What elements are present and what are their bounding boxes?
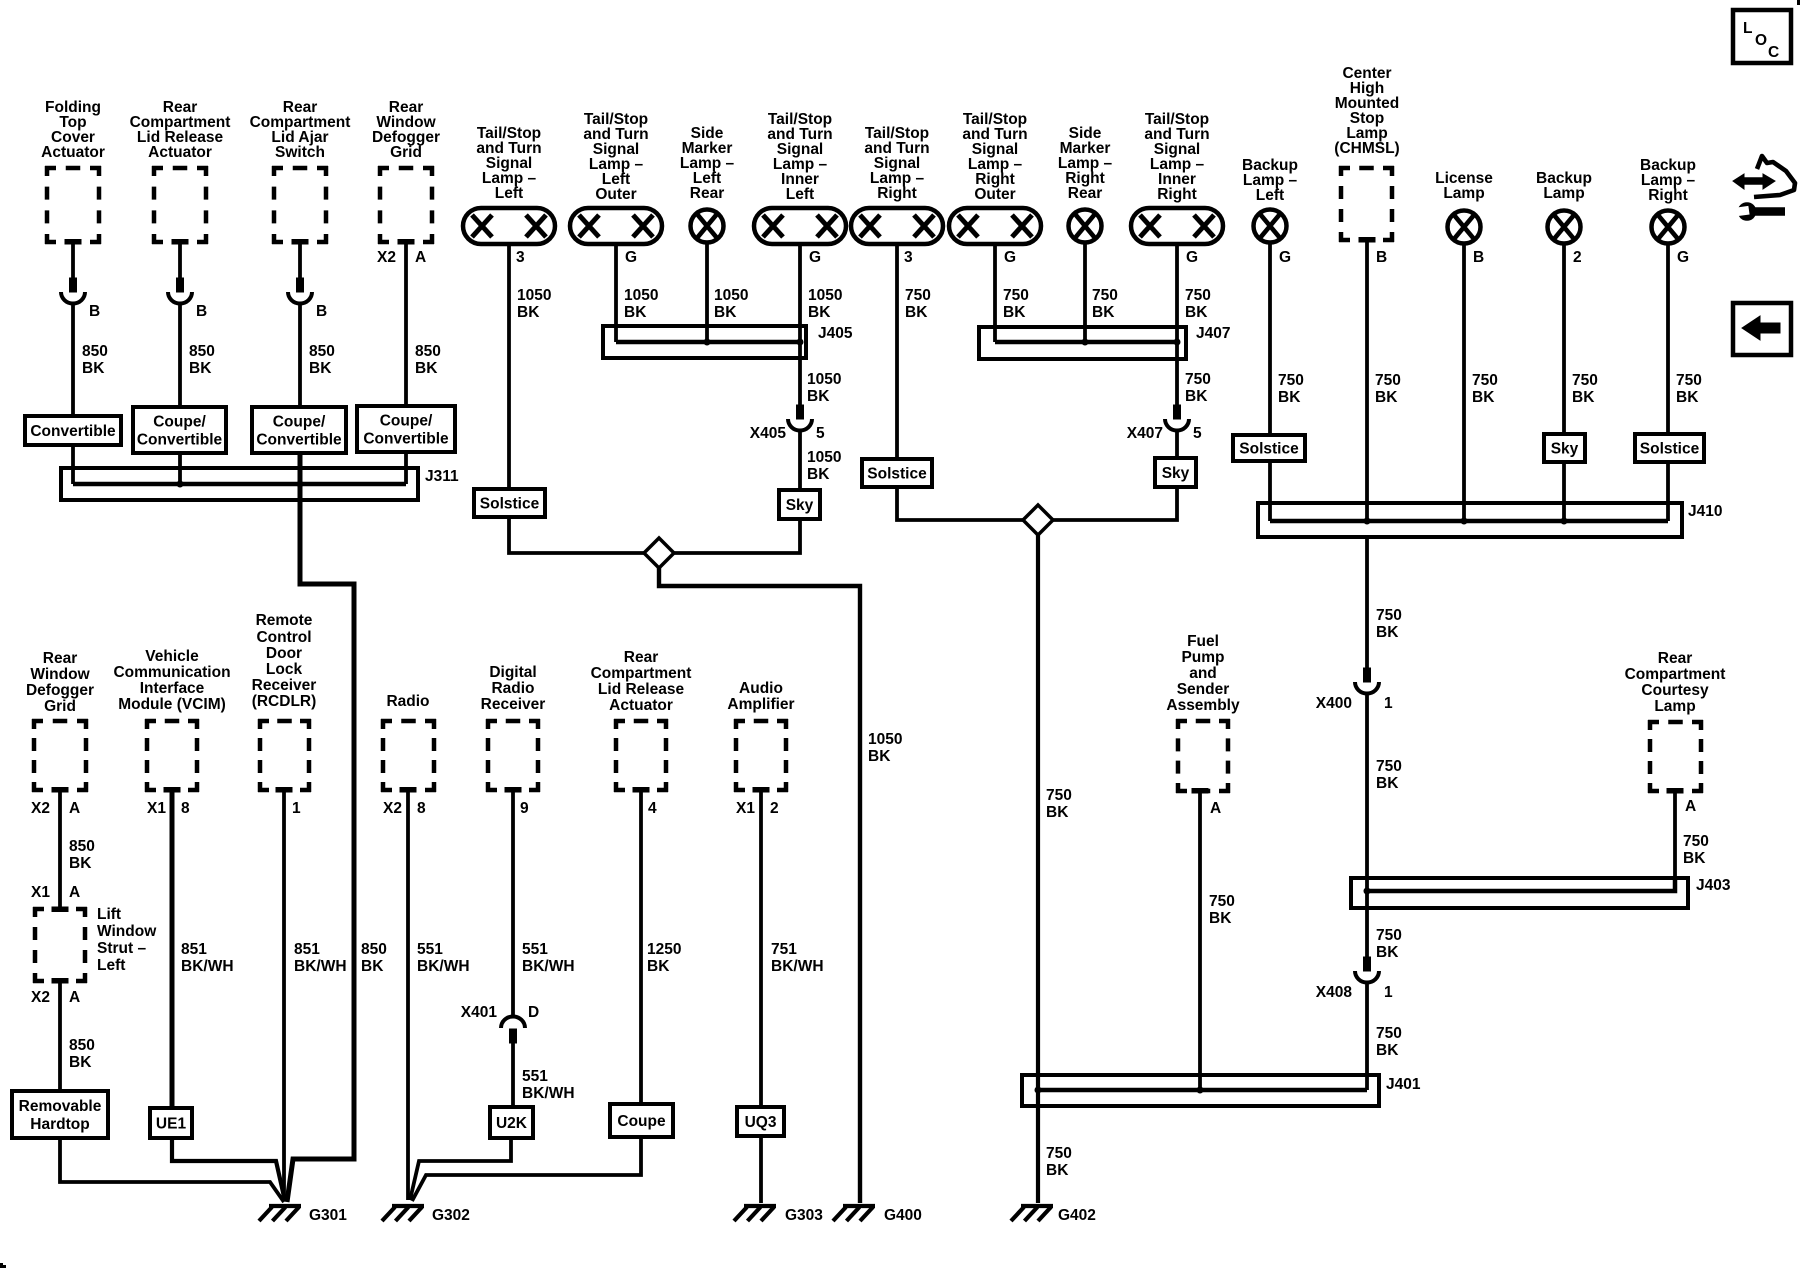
- box: Coupe: [610, 1104, 673, 1137]
- svg-text:750BK: 750BK: [1003, 287, 1029, 321]
- wire to G302: [412, 1137, 641, 1201]
- svg-text:5: 5: [1193, 425, 1202, 442]
- component box: rear window defogger grid: [378, 166, 434, 244]
- wire 850 BK rear compartment lid release actuator: [178, 303, 182, 407]
- J407 bus: [995, 340, 1177, 345]
- inline connector X401: [501, 1017, 525, 1044]
- lamp symbol: backup lamp - left: [1254, 210, 1287, 243]
- svg-text:B: B: [89, 303, 100, 320]
- svg-text:B: B: [1473, 249, 1484, 266]
- wire 1050 BK: [705, 243, 709, 342]
- box: Solstice: [1635, 434, 1704, 462]
- component box: folding top cover actuator: [45, 166, 101, 244]
- component box: rear window defogger grid: [32, 719, 88, 792]
- wire into J410: [1562, 462, 1566, 521]
- wire to G301: [172, 1138, 285, 1201]
- wire 850 BK folding top cover actuator: [71, 303, 75, 416]
- wire 1250 BK: [639, 792, 643, 1104]
- box: Solstice: [1233, 435, 1305, 461]
- component box: audio amplifier: [734, 719, 788, 792]
- junction on J405: [797, 339, 804, 346]
- svg-text:5: 5: [816, 425, 825, 442]
- svg-text:X405: X405: [750, 425, 787, 442]
- wire 751 BK/WH to G303: [759, 792, 763, 1203]
- svg-text:750BK: 750BK: [1676, 372, 1702, 406]
- component box: radio: [381, 719, 436, 792]
- svg-text:850BK: 850BK: [415, 343, 441, 377]
- junction block J407: [979, 327, 1186, 359]
- svg-text:X400: X400: [1316, 695, 1352, 712]
- wire 750 BK to G402: [1036, 535, 1040, 1203]
- box: Solstice: [862, 459, 932, 487]
- wire from rear compartment lid ajar switch: [298, 244, 302, 278]
- svg-text:X407: X407: [1127, 425, 1163, 442]
- svg-text:9: 9: [520, 800, 529, 817]
- component box: rear compartment courtesy lamp: [1648, 720, 1703, 793]
- wire 1050 BK below J405: [798, 342, 802, 405]
- wire 750 BK from CHMSL: [1365, 242, 1369, 521]
- svg-text:X2: X2: [377, 249, 396, 266]
- box: Solstice: [474, 489, 545, 517]
- svg-text:750BK: 750BK: [1046, 787, 1072, 821]
- svg-text:850BK: 850BK: [361, 941, 387, 975]
- J401 bus: [1038, 1088, 1367, 1093]
- svg-text:3: 3: [516, 249, 525, 266]
- box: Sky: [779, 490, 820, 519]
- junction on J401: [1197, 1087, 1204, 1094]
- wire to G302: [410, 1138, 511, 1200]
- ground G301: [259, 1206, 301, 1221]
- splice diamond left: [644, 538, 674, 568]
- inline connector X407: [1165, 405, 1189, 431]
- svg-text:850BK: 850BK: [69, 1037, 95, 1071]
- wire 750 BK: [1175, 244, 1179, 342]
- box: Coupe/Convertible: [357, 406, 455, 452]
- lamp symbol: tail/stop and turn signal lamp - right: [851, 208, 943, 244]
- svg-text:X2: X2: [383, 800, 402, 817]
- wire into J410: [1666, 462, 1670, 521]
- svg-text:X1: X1: [147, 800, 166, 817]
- svg-text:Radio: Radio: [386, 693, 429, 710]
- svg-text:1: 1: [1384, 984, 1393, 1001]
- box: Sky: [1155, 458, 1196, 487]
- svg-text:G: G: [1279, 249, 1291, 266]
- wire to splice: [1053, 487, 1177, 520]
- J311 bus: [73, 482, 406, 487]
- page corner mark top right: [1797, 0, 1800, 5]
- wire to splice: [509, 517, 644, 553]
- svg-text:X1: X1: [736, 800, 755, 817]
- lamp symbol: side marker lamp - right rear: [1069, 210, 1102, 243]
- junction on J410: [1561, 518, 1568, 525]
- lamp symbol: tail/stop and turn signal lamp - left outer: [570, 208, 662, 244]
- svg-text:A: A: [1210, 800, 1221, 817]
- svg-text:B: B: [1376, 249, 1387, 266]
- wire 750 BK to J401: [1365, 982, 1369, 1090]
- wire 850 BK: [58, 792, 62, 907]
- page corner mark bottom left: [0, 1263, 6, 1268]
- svg-text:750BK: 750BK: [1472, 372, 1498, 406]
- svg-text:J410: J410: [1688, 503, 1722, 520]
- junction block J311: [61, 468, 418, 500]
- wire to splice: [674, 519, 800, 553]
- wire 750 BK through J403: [1365, 693, 1369, 957]
- wire 750 BK: [993, 244, 997, 342]
- icon: L O C box: [1733, 10, 1791, 63]
- svg-text:G: G: [1004, 249, 1016, 266]
- icon: back arrow box: [1733, 303, 1791, 355]
- lamp symbol: license lamp: [1448, 211, 1481, 244]
- wire from folding top cover actuator: [71, 244, 75, 278]
- svg-text:B: B: [196, 303, 207, 320]
- svg-text:A: A: [69, 800, 80, 817]
- svg-text:L: L: [1743, 20, 1752, 37]
- inline connector B of folding top cover actuator: [61, 278, 85, 304]
- wire into J410: [1268, 461, 1272, 521]
- lamp symbol: tail/stop and turn signal lamp - inner left: [754, 208, 846, 244]
- inline connector B of rear compartment lid release actuator: [168, 278, 192, 304]
- ground G400: [833, 1206, 875, 1221]
- lamp symbol: backup lamp - right: [1652, 211, 1685, 244]
- wire 850 BK: [58, 983, 62, 1091]
- svg-text:G402: G402: [1058, 1207, 1096, 1224]
- wire 750 BK: [895, 244, 899, 459]
- component box: lift window strut - left: [33, 907, 87, 983]
- svg-text:2: 2: [770, 800, 779, 817]
- svg-text:850BK: 850BK: [82, 343, 108, 377]
- lamp symbol: backup lamp: [1548, 211, 1581, 244]
- junction block J403: [1351, 878, 1688, 908]
- J410 bus: [1270, 519, 1668, 524]
- wire 851 BK/WH to G301: [282, 792, 286, 1200]
- inline connector X400: [1355, 668, 1379, 694]
- inline connector X408: [1355, 957, 1379, 983]
- svg-text:X2: X2: [31, 989, 50, 1006]
- svg-text:X408: X408: [1316, 984, 1353, 1001]
- svg-text:A: A: [415, 249, 426, 266]
- svg-text:BackupLamp –Right: BackupLamp –Right: [1640, 157, 1696, 204]
- svg-text:750BK: 750BK: [1185, 287, 1211, 321]
- svg-text:750BK: 750BK: [1185, 371, 1211, 405]
- junction on J405: [704, 339, 711, 346]
- svg-text:750BK: 750BK: [1046, 1145, 1072, 1179]
- wire 750 BK: [1083, 243, 1087, 342]
- svg-text:750BK: 750BK: [1092, 287, 1118, 321]
- svg-text:Sky: Sky: [1551, 441, 1579, 458]
- junction on J407: [1174, 339, 1181, 346]
- box: Convertible: [25, 416, 121, 445]
- svg-text:A: A: [69, 989, 80, 1006]
- wire 750 BK: [1462, 244, 1466, 521]
- svg-text:D: D: [528, 1004, 539, 1021]
- svg-text:G400: G400: [884, 1207, 922, 1224]
- wire 1050 BK: [798, 244, 802, 342]
- svg-text:750BK: 750BK: [1209, 893, 1235, 927]
- J403 bus: [1367, 878, 1675, 891]
- svg-text:Sky: Sky: [1162, 465, 1190, 482]
- wire to J311: [178, 453, 182, 484]
- wire 750 BK below J410: [1365, 537, 1369, 668]
- component box: rear compartment lid release actuator: [152, 166, 208, 244]
- svg-text:Solstice: Solstice: [480, 496, 540, 513]
- junction on J401: [1035, 1087, 1042, 1094]
- inline connector X405: [788, 405, 812, 431]
- icon: harness routing arrows with wrench: [1733, 156, 1795, 221]
- svg-text:X1: X1: [31, 884, 50, 901]
- lamp symbol: side marker lamp - left rear: [691, 210, 724, 243]
- svg-text:1: 1: [1384, 695, 1393, 712]
- wire to J311: [404, 452, 408, 484]
- lamp symbol: tail/stop and turn signal lamp - right outer: [949, 208, 1041, 244]
- svg-text:Convertible: Convertible: [30, 423, 116, 440]
- svg-text:BackupLamp: BackupLamp: [1536, 170, 1592, 202]
- svg-text:U2K: U2K: [496, 1115, 528, 1132]
- junction on J407: [1082, 339, 1089, 346]
- svg-text:850BK: 850BK: [69, 838, 95, 872]
- component box: fuel pump and sender assembly: [1176, 719, 1230, 793]
- ground G302: [382, 1206, 424, 1221]
- box: U2K: [490, 1107, 533, 1138]
- svg-text:4: 4: [648, 800, 657, 817]
- box: Removable Hardtop: [12, 1091, 108, 1138]
- wire 750 BK: [1666, 244, 1670, 434]
- svg-text:750BK: 750BK: [1376, 758, 1402, 792]
- wire 850 BK from lid ajar switch to G301: [287, 453, 354, 1202]
- wire from rear compartment lid release actuator: [178, 244, 182, 278]
- svg-text:J403: J403: [1696, 877, 1731, 894]
- wire 750 BK: [1175, 430, 1179, 458]
- wire 750 BK: [1268, 243, 1272, 435]
- wire 551 BK/WH: [511, 1043, 515, 1107]
- svg-text:CenterHighMountedStopLamp(CHMS: CenterHighMountedStopLamp(CHMSL): [1334, 65, 1399, 157]
- wire 1050 BK: [614, 244, 618, 342]
- ground G402: [1011, 1206, 1053, 1221]
- junction block J401: [1022, 1075, 1379, 1106]
- svg-text:850BK: 850BK: [189, 343, 215, 377]
- wire 750 BK below J407: [1175, 342, 1179, 405]
- component box: center high mounted stop lamp (CHMSL): [1339, 166, 1394, 242]
- wire 750 BK: [1562, 244, 1566, 434]
- svg-text:J407: J407: [1196, 325, 1230, 342]
- box: UQ3: [737, 1107, 784, 1136]
- svg-text:A: A: [69, 884, 80, 901]
- junction block J410: [1258, 503, 1682, 537]
- box: UE1: [150, 1108, 192, 1138]
- svg-text:G: G: [1677, 249, 1689, 266]
- svg-text:3: 3: [904, 249, 913, 266]
- component box: digital radio receiver: [486, 719, 540, 792]
- box: Coupe/Convertible: [133, 407, 226, 453]
- component box: vehicle communication interface module (VCIM): [145, 719, 199, 792]
- svg-text:750BK: 750BK: [1376, 1025, 1402, 1059]
- wire 850 BK rear window defogger grid: [404, 244, 408, 406]
- wire 850 BK rear compartment lid ajar switch: [298, 303, 302, 407]
- svg-text:A: A: [1685, 798, 1696, 815]
- svg-text:750BK: 750BK: [1376, 607, 1402, 641]
- wire 551 BK/WH: [511, 792, 515, 1016]
- ground G303: [734, 1206, 776, 1221]
- svg-text:Sky: Sky: [786, 497, 814, 514]
- svg-text:Solstice: Solstice: [1640, 441, 1700, 458]
- wire 551 BK/WH to G302: [406, 792, 410, 1200]
- svg-text:750BK: 750BK: [1375, 372, 1401, 406]
- svg-text:750BK: 750BK: [905, 287, 931, 321]
- svg-text:B: B: [316, 303, 327, 320]
- wire to G301: [60, 1138, 284, 1202]
- wire to splice: [897, 487, 1023, 520]
- svg-text:RemovableHardtop: RemovableHardtop: [19, 1098, 102, 1133]
- lamp symbol: tail/stop and turn signal lamp - inner right: [1131, 208, 1223, 244]
- wire convertible to J311: [71, 445, 75, 484]
- svg-text:750BK: 750BK: [1572, 372, 1598, 406]
- component box: remote control door lock receiver (RCDLR): [258, 719, 311, 792]
- box: Sky: [1544, 434, 1585, 462]
- svg-text:1: 1: [292, 800, 301, 817]
- svg-text:Coupe: Coupe: [617, 1113, 666, 1130]
- box: Coupe/Convertible: [252, 407, 346, 453]
- junction on J403: [1364, 888, 1371, 895]
- svg-text:J405: J405: [818, 325, 853, 342]
- svg-text:8: 8: [181, 800, 190, 817]
- svg-text:Solstice: Solstice: [1239, 441, 1299, 458]
- wire 750 BK to J401: [1198, 793, 1202, 1090]
- svg-text:750BK: 750BK: [1376, 927, 1402, 961]
- svg-text:X401: X401: [461, 1004, 498, 1021]
- svg-text:8: 8: [417, 800, 426, 817]
- svg-text:G303: G303: [785, 1207, 823, 1224]
- component box: rear compartment lid ajar switch: [272, 166, 328, 244]
- junction on J410: [1461, 518, 1468, 525]
- wire 851 BK/WH: [170, 792, 175, 1108]
- wire 1050 BK: [798, 430, 802, 490]
- svg-text:G301: G301: [309, 1207, 347, 1224]
- J405 bus: [616, 340, 800, 345]
- inline connector B of rear compartment lid ajar switch: [288, 278, 312, 304]
- svg-text:G: G: [809, 249, 821, 266]
- svg-text:750BK: 750BK: [1683, 833, 1709, 867]
- component box: rear compartment lid release actuator: [614, 719, 668, 792]
- svg-text:J311: J311: [425, 468, 459, 485]
- svg-text:LicenseLamp: LicenseLamp: [1435, 170, 1493, 202]
- svg-text:O: O: [1755, 32, 1767, 49]
- junction on J311: [297, 481, 304, 488]
- svg-text:850BK: 850BK: [309, 343, 335, 377]
- svg-text:X2: X2: [31, 800, 50, 817]
- svg-text:J401: J401: [1386, 1076, 1421, 1093]
- svg-text:UQ3: UQ3: [745, 1114, 777, 1131]
- junction on J311: [177, 481, 184, 488]
- svg-text:G: G: [625, 249, 637, 266]
- wire 1050 BK to G400: [659, 568, 860, 1203]
- svg-text:G: G: [1186, 249, 1198, 266]
- lamp symbol: tail/stop and turn signal lamp - left: [463, 208, 555, 244]
- svg-text:UE1: UE1: [156, 1116, 187, 1133]
- svg-text:C: C: [1768, 44, 1779, 61]
- svg-text:2: 2: [1573, 249, 1582, 266]
- wire 1050 BK: [507, 244, 511, 489]
- svg-text:750BK: 750BK: [1278, 372, 1304, 406]
- splice diamond right: [1023, 505, 1053, 535]
- svg-text:Solstice: Solstice: [867, 466, 927, 483]
- svg-text:G302: G302: [432, 1207, 470, 1224]
- junction block J405: [603, 326, 806, 358]
- junction on J410: [1364, 518, 1371, 525]
- wire 750 BK to J403: [1673, 793, 1677, 891]
